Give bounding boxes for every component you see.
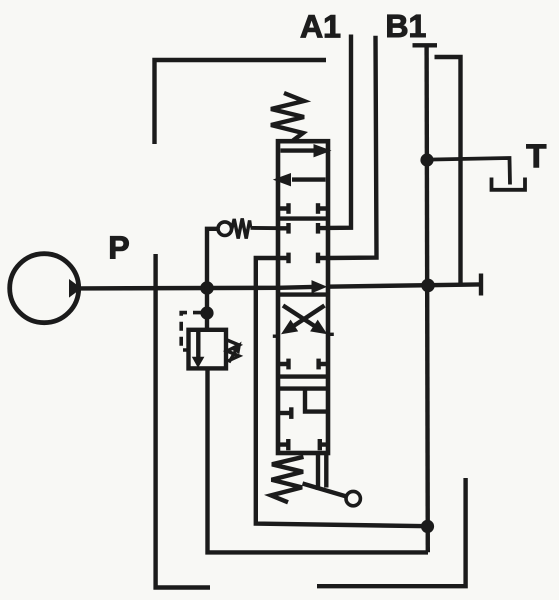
pos4 float link line: [280, 386, 327, 390]
pos4 blocked port left: [280, 411, 291, 415]
frame top-left bracket: [155, 60, 327, 144]
wire B1 stub: [328, 36, 377, 258]
lever: [303, 484, 347, 497]
junction P bus: [421, 279, 435, 293]
pos4 blocked ports lower: [280, 442, 327, 446]
relief valve spring: [227, 340, 239, 361]
relief valve R1 box: [189, 330, 227, 369]
pos2 carryover arrow: [278, 285, 313, 290]
pump M1: [10, 254, 79, 323]
spool extension rails: [316, 453, 320, 490]
junction relief pilot: [200, 306, 213, 319]
check valve ball: [218, 222, 232, 236]
pos2 blocked ports lower: [280, 256, 326, 260]
pos3 arrow tip stubs: [273, 335, 280, 338]
frame left: [156, 254, 210, 588]
wire P to relief: [205, 288, 209, 330]
pos1 flow arrow right: [281, 148, 316, 152]
P line end cap: [479, 274, 483, 296]
pump flow arrow: [69, 279, 82, 298]
relief drain wire: [208, 368, 429, 552]
label T: [527, 145, 546, 168]
wire check to valve: [251, 226, 281, 230]
return spring bottom: [271, 457, 304, 503]
junction P-relief: [200, 281, 214, 295]
tank symbol: [492, 178, 526, 190]
position divider 1: [278, 216, 328, 220]
relief valve internal arrow: [196, 332, 200, 358]
wire P supply: [79, 286, 279, 291]
pos3 crossed arrow A: [283, 306, 315, 327]
pos4 float elbow: [305, 389, 327, 412]
return spring top: [271, 93, 304, 141]
lever knob: [346, 491, 360, 505]
frame top-right bracket: [435, 57, 461, 285]
wire to tank: [427, 158, 510, 185]
label P: [110, 236, 128, 258]
label A1: [301, 15, 340, 37]
pos1 flow arrow left: [292, 177, 326, 181]
wire tank bus: [427, 45, 428, 552]
wire P carryover: [326, 284, 481, 286]
position divider 3: [278, 374, 328, 378]
check valve spring: [232, 219, 251, 239]
pos2 blocked ports upper: [280, 226, 326, 231]
wire A1: [328, 35, 351, 228]
valve body DCV main box: [278, 141, 328, 453]
junction tank branch: [420, 153, 433, 166]
pos1 blocked ports: [280, 206, 326, 210]
pos3 blocked ports: [280, 362, 326, 366]
label B1: [388, 15, 426, 37]
frame bottom-right bracket: [317, 478, 466, 586]
wire port B to bottom link: [256, 258, 428, 526]
B1 cap: [413, 43, 438, 47]
relief pilot dashed line: [181, 313, 202, 350]
pos3 crossed arrow B: [293, 306, 325, 327]
position divider 2: [278, 292, 328, 296]
relief valve adjust arrow: [229, 348, 237, 363]
wire check valve branch: [207, 229, 218, 288]
junction bottom: [421, 520, 434, 533]
